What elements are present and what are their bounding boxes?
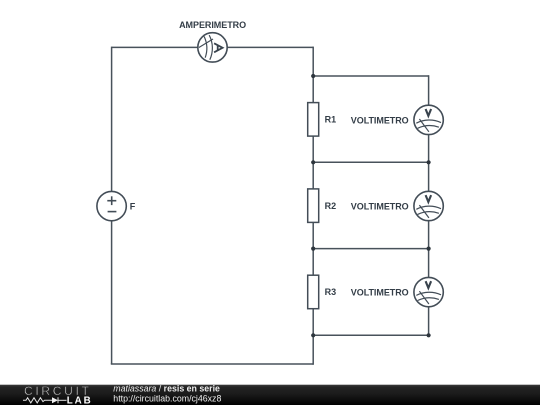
footer bar — [0, 385, 540, 405]
wire: right branch vertical segment R1 to R2 — [312, 136, 314, 189]
svg-text:matiassara / resis en serie: matiassara / resis en serie — [113, 384, 220, 394]
svg-text:R3: R3 — [325, 287, 337, 297]
CircuitLab logo text LAB — [67, 395, 93, 405]
wire: left vertical (below source F) — [111, 221, 113, 364]
svg-text:R1: R1 — [325, 115, 337, 125]
junction node at (428,335) — [427, 333, 431, 337]
label F — [130, 201, 136, 211]
label R2 — [325, 201, 337, 211]
wire: voltmeter branch vertical segments — [428, 75, 430, 336]
resistor R3 — [308, 275, 319, 309]
label VOLTIMETRO 1 — [351, 115, 409, 125]
wire: top horizontal (right of ammeter) — [227, 46, 313, 48]
svg-text:VOLTIMETRO: VOLTIMETRO — [351, 201, 409, 211]
svg-text:R2: R2 — [325, 201, 337, 211]
voltmeter V1 — [414, 105, 443, 134]
junction node at (313,249) — [311, 247, 315, 251]
wire: row 2 horizontal to voltmeter branch — [313, 161, 428, 163]
wire: row 1 horizontal to voltmeter branch — [313, 75, 428, 77]
label R3 — [325, 287, 337, 297]
junction node at (313,335) — [311, 333, 315, 337]
junction node at (313,76) — [311, 74, 315, 78]
wire: left vertical (above source F) — [111, 47, 113, 192]
footer url — [113, 393, 221, 403]
wire: bottom horizontal — [111, 363, 313, 365]
resistor R2 — [308, 189, 319, 223]
voltmeter V2 — [414, 191, 443, 220]
label AMPERIMETRO — [179, 20, 246, 30]
ammeter letter A (rotated, apex right) — [214, 43, 223, 52]
svg-text:F: F — [130, 201, 136, 211]
svg-text:VOLTIMETRO: VOLTIMETRO — [351, 115, 409, 125]
ammeter U_A — [198, 33, 227, 62]
label R1 — [325, 115, 337, 125]
voltmeter V3 — [414, 277, 443, 306]
CircuitLab logo text CIRCUIT — [24, 384, 92, 398]
junction node at (428,162) — [427, 160, 431, 164]
svg-text:AMPERIMETRO: AMPERIMETRO — [179, 20, 246, 30]
wire: row 4 horizontal to voltmeter branch — [313, 334, 428, 336]
junction node at (428,249) — [427, 247, 431, 251]
footer title: matiassara / resis en serie — [113, 384, 220, 394]
junction node at (313,162) — [311, 160, 315, 164]
resistor R1 — [308, 103, 319, 137]
svg-text:VOLTIMETRO: VOLTIMETRO — [351, 288, 409, 298]
svg-text:LAB: LAB — [67, 395, 93, 405]
voltage source F — [97, 191, 126, 220]
wire: row 3 horizontal to voltmeter branch — [313, 248, 428, 250]
CircuitLab logo resistor-diode squiggle — [23, 397, 67, 403]
label VOLTIMETRO 2 — [351, 201, 409, 211]
wire: right branch vertical segment R3 to bottom — [312, 309, 314, 365]
label VOLTIMETRO 3 — [351, 288, 409, 298]
wire: right branch vertical segment R2 to R3 — [312, 222, 314, 275]
wire: top horizontal (left of ammeter) — [112, 46, 198, 48]
svg-text:http://circuitlab.com/cj46xz8: http://circuitlab.com/cj46xz8 — [113, 393, 221, 403]
wire: right branch vertical segment top to R1 — [312, 47, 314, 103]
